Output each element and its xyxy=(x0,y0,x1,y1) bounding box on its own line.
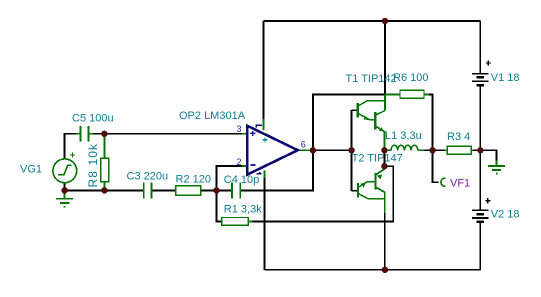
svg-text:3: 3 xyxy=(237,124,242,134)
wire pin3 input row xyxy=(104,133,242,135)
wire output node vertical between emitters xyxy=(383,150,385,166)
wire op-amp pin4 down xyxy=(264,178,266,270)
svg-text:6: 6 xyxy=(301,139,306,149)
source VG1 xyxy=(53,159,77,183)
wire L1 right to R3 xyxy=(425,149,446,151)
svg-text:C3 220u: C3 220u xyxy=(127,171,169,183)
wire battery column V1 xyxy=(479,21,481,150)
wire junction A up to pin2 row xyxy=(217,166,243,190)
op-amp teal plus mark xyxy=(263,137,268,142)
op-amp pin7 squiggle xyxy=(256,125,262,127)
resistor R8 xyxy=(101,134,109,191)
capacitor C5 xyxy=(76,126,93,142)
wire C5 row left and VG1 top xyxy=(65,134,76,159)
wire T2 collector down to bottom rail xyxy=(384,213,386,270)
wire top-rail to T1 collector node xyxy=(384,21,386,94)
wire C5 right to R8 junction xyxy=(93,133,104,135)
wire battery column V2 xyxy=(479,150,481,269)
svg-text:R1 3,3k: R1 3,3k xyxy=(224,204,262,216)
inductor L1 xyxy=(384,145,424,150)
svg-text:C4 10p: C4 10p xyxy=(224,174,259,186)
wire base vertical xyxy=(351,110,353,191)
svg-text:V2 18: V2 18 xyxy=(491,208,520,220)
wire left supply vertical to op-amp pin7 xyxy=(263,21,265,119)
svg-text:VF1: VF1 xyxy=(450,178,470,190)
battery V1 xyxy=(472,74,489,85)
probe VF1 xyxy=(441,178,446,186)
transistor T2 emitter arrows xyxy=(360,175,382,188)
ground left xyxy=(56,190,73,206)
transistor T1 darlington xyxy=(352,94,385,150)
svg-text:C5 100u: C5 100u xyxy=(72,113,114,125)
svg-text:2: 2 xyxy=(237,157,242,167)
wire VG1 bottom xyxy=(64,183,66,190)
svg-text:T2 TIP147: T2 TIP147 xyxy=(352,153,403,165)
ground right xyxy=(488,161,505,174)
resistor R2 xyxy=(176,186,201,195)
wire junction A down to R1 xyxy=(217,190,223,221)
wire feedback from pin6 down to C4 xyxy=(247,150,314,190)
wire op-amp output up and over to collector node xyxy=(313,94,385,150)
plus mark VG1 xyxy=(70,152,75,157)
transistor T2 darlington xyxy=(352,166,385,213)
op-amp OP2 pins stubs xyxy=(242,119,313,178)
wire top rail xyxy=(264,20,481,22)
wire output row to bases xyxy=(313,149,352,151)
plus mark V1 xyxy=(486,60,491,65)
wire bottom rail xyxy=(265,269,481,271)
svg-text:T1 TIP142: T1 TIP142 xyxy=(346,73,397,85)
resistor R6 xyxy=(385,90,429,98)
wire R1 right to output node tap xyxy=(253,166,394,221)
svg-text:R8 10k: R8 10k xyxy=(86,143,100,188)
svg-text:R2 120: R2 120 xyxy=(176,174,211,186)
svg-text:V1 18: V1 18 xyxy=(491,72,520,84)
capacitor C3 xyxy=(144,183,152,199)
svg-text:VG1: VG1 xyxy=(20,164,42,176)
wire VF1 branch xyxy=(433,150,439,182)
svg-text:L1 3,3u: L1 3,3u xyxy=(385,130,422,142)
wire right ground branch xyxy=(480,150,496,160)
wire R3 right to battery column xyxy=(474,149,481,151)
wire bottom input row xyxy=(65,189,313,191)
capacitor C4 xyxy=(232,183,240,199)
svg-text:OP2 LM301A: OP2 LM301A xyxy=(179,110,246,122)
op-amp OP2 triangle xyxy=(247,126,297,175)
battery V2 xyxy=(472,210,489,221)
resistor R1 xyxy=(222,218,253,226)
resistor R3 xyxy=(445,146,474,154)
op-amp minus input mark xyxy=(250,164,255,166)
svg-text:R6 100: R6 100 xyxy=(393,72,428,84)
op-amp pin4 squiggle xyxy=(256,172,261,174)
transistor T1 emitter arrows xyxy=(363,116,384,132)
plus mark V2 xyxy=(485,198,490,203)
op-amp plus input mark xyxy=(250,131,255,136)
svg-text:R3 4: R3 4 xyxy=(447,131,470,143)
wire R6 right down to L1 right node xyxy=(429,94,433,150)
